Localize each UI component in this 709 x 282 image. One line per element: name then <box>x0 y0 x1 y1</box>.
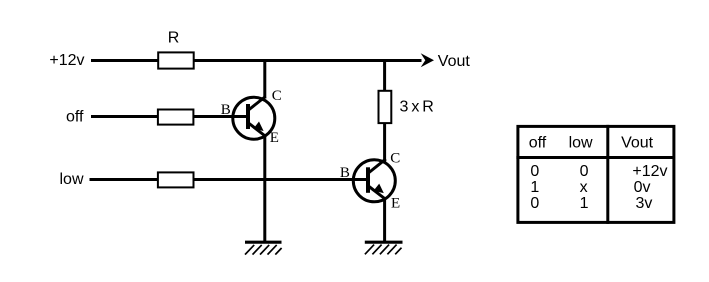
svg-text:R: R <box>168 30 180 47</box>
wire resistor 3xR to Q2 collector <box>383 123 386 163</box>
svg-text:0: 0 <box>530 163 539 180</box>
svg-text:low: low <box>59 171 83 188</box>
svg-text:0: 0 <box>530 195 539 212</box>
wire low input <box>90 178 368 181</box>
svg-text:B: B <box>340 165 350 181</box>
svg-text:x: x <box>580 179 588 196</box>
svg-text:off: off <box>66 108 84 125</box>
svg-text:E: E <box>270 130 279 146</box>
transistor Q2 <box>353 159 395 202</box>
wire off input <box>91 115 247 118</box>
svg-text:Vout: Vout <box>438 53 471 70</box>
wire Q1 emitter to ground <box>263 134 266 242</box>
wire Q2 emitter to ground <box>383 197 386 242</box>
svg-text:E: E <box>391 195 400 211</box>
svg-text:1: 1 <box>580 195 589 212</box>
truth table frame <box>518 126 674 222</box>
wire Q1 collector <box>263 59 266 99</box>
ground (Q1 emitter) <box>245 242 282 254</box>
svg-text:low: low <box>569 134 593 151</box>
svg-text:3v: 3v <box>636 195 653 212</box>
svg-text:+12v: +12v <box>632 163 667 180</box>
svg-text:C: C <box>390 151 400 167</box>
svg-text:0v: 0v <box>634 179 651 196</box>
svg-text:1: 1 <box>530 179 539 196</box>
svg-text:3 x R: 3 x R <box>400 98 434 115</box>
svg-text:0: 0 <box>580 163 589 180</box>
vout arrowhead <box>421 53 434 67</box>
svg-text:C: C <box>272 88 282 104</box>
transistor Q1 <box>233 97 275 140</box>
resistor R <box>158 52 194 68</box>
svg-text:Vout: Vout <box>621 134 654 151</box>
resistor R3 (low input) <box>158 172 194 187</box>
resistor R2 (off input) <box>158 110 194 125</box>
wire +12v rail <box>91 59 422 62</box>
truth table header divider <box>516 156 674 159</box>
svg-text:B: B <box>221 102 231 118</box>
truth table column divider <box>606 125 609 224</box>
wire rail to resistor 3xR <box>383 59 386 92</box>
ground (Q2 emitter) <box>365 242 403 254</box>
svg-text:off: off <box>529 134 547 151</box>
svg-text:+12v: +12v <box>49 52 84 69</box>
resistor 3xR <box>379 91 392 123</box>
